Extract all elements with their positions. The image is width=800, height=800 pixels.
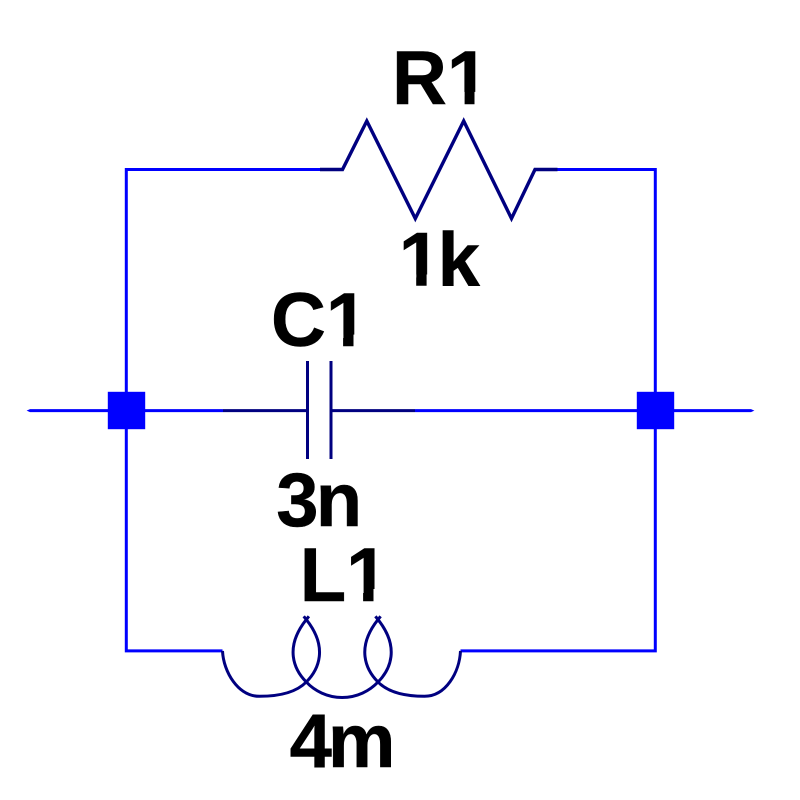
svg-text:4m: 4m — [290, 699, 396, 784]
svg-text:1k: 1k — [399, 218, 481, 303]
svg-text:R1: R1 — [392, 36, 489, 121]
svg-text:L1: L1 — [300, 533, 389, 618]
svg-text:C1: C1 — [271, 278, 368, 363]
svg-text:3n: 3n — [276, 458, 362, 543]
